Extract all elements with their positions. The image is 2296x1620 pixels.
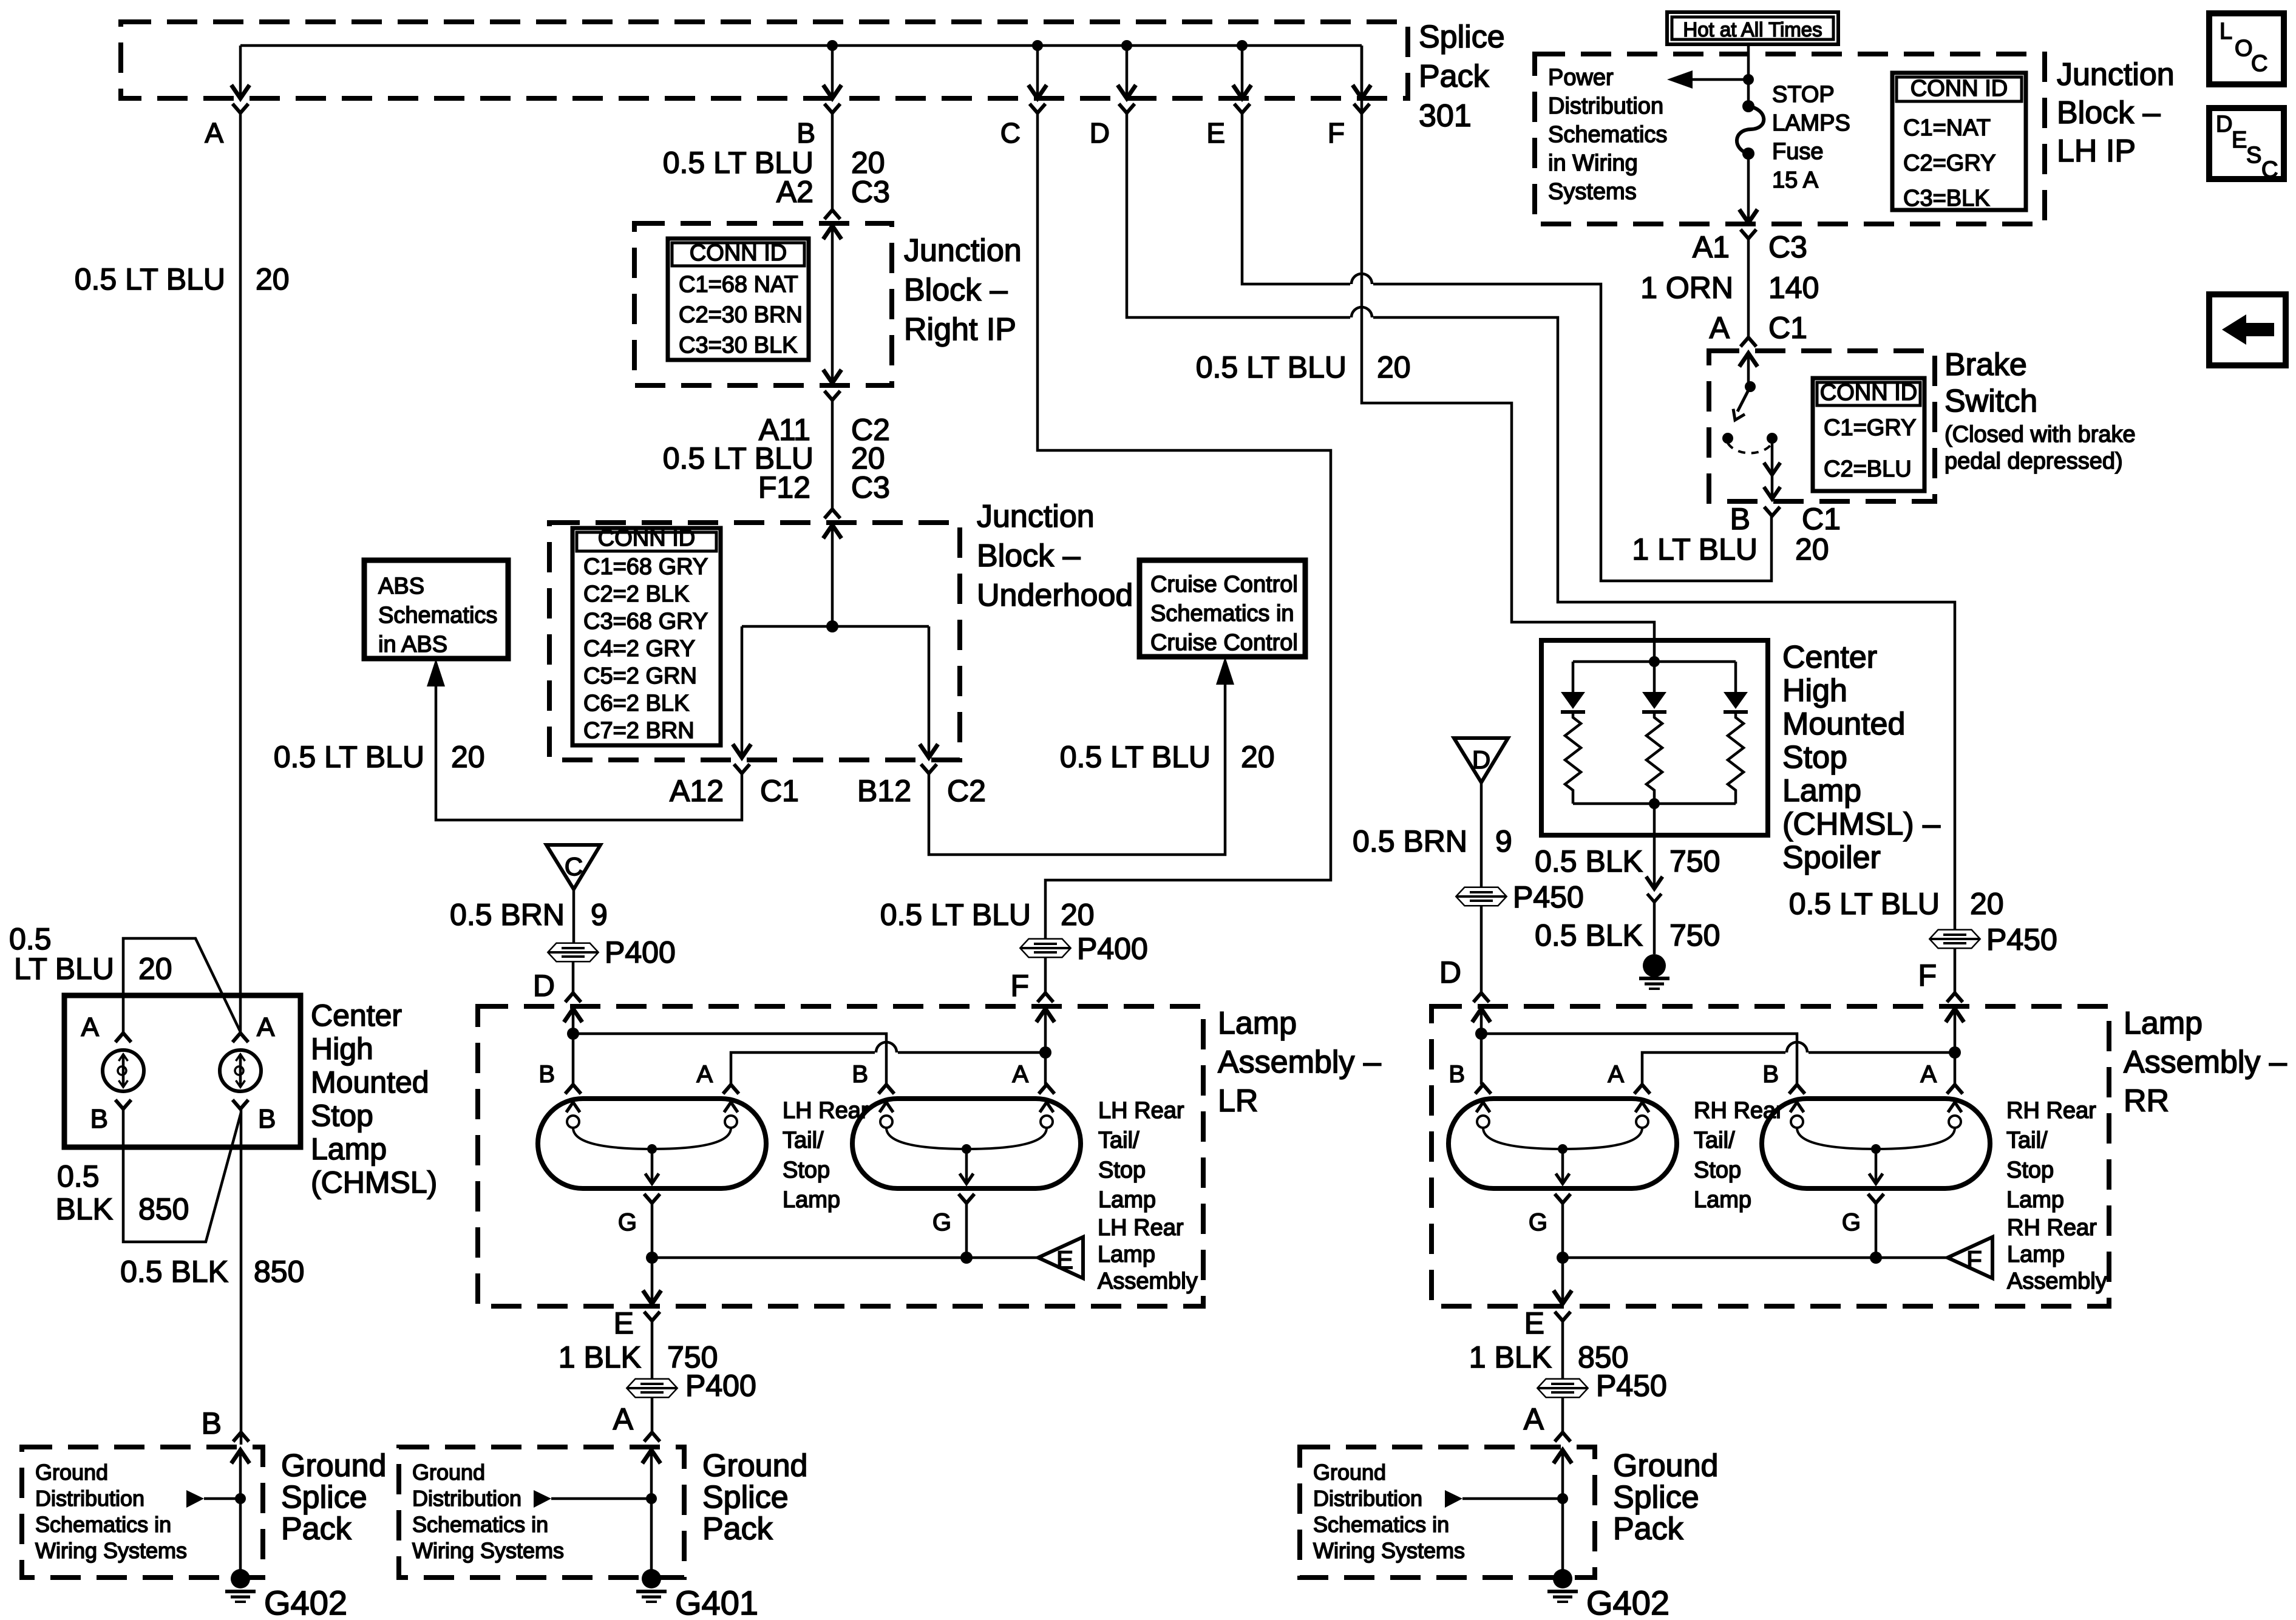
svg-text:C3=30 BLK: C3=30 BLK — [679, 333, 797, 358]
svg-text:Assembly –: Assembly – — [2124, 1045, 2287, 1080]
svg-text:A: A — [205, 117, 223, 149]
svg-text:LH Rear: LH Rear — [783, 1098, 869, 1123]
svg-text:F: F — [1010, 969, 1029, 1003]
svg-text:Pack: Pack — [1419, 59, 1490, 94]
svg-text:LH Rear: LH Rear — [1098, 1098, 1184, 1123]
svg-text:1 LT BLU: 1 LT BLU — [1632, 532, 1758, 566]
svg-text:LAMPS: LAMPS — [1772, 110, 1850, 136]
svg-text:C3=68 GRY: C3=68 GRY — [583, 609, 708, 634]
svg-text:A: A — [1012, 1061, 1028, 1088]
svg-text:Ground: Ground — [1313, 1460, 1386, 1485]
svg-text:B: B — [258, 1104, 276, 1134]
svg-text:Right IP: Right IP — [904, 312, 1016, 347]
svg-text:Schematics: Schematics — [378, 603, 497, 628]
svg-text:A: A — [1710, 311, 1730, 345]
svg-text:G: G — [1842, 1209, 1861, 1236]
svg-text:Lamp: Lamp — [2124, 1006, 2203, 1041]
svg-text:Stop: Stop — [2006, 1157, 2054, 1183]
svg-text:C1: C1 — [1768, 311, 1807, 345]
svg-text:A: A — [257, 1012, 275, 1042]
svg-text:Power: Power — [1548, 65, 1614, 90]
svg-text:Schematics in: Schematics in — [1313, 1512, 1449, 1537]
svg-text:Brake: Brake — [1944, 347, 2027, 382]
svg-text:0.5: 0.5 — [9, 922, 52, 956]
svg-text:F12: F12 — [758, 470, 810, 504]
svg-text:C6=2 BLK: C6=2 BLK — [583, 691, 689, 716]
svg-text:Cruise Control: Cruise Control — [1150, 572, 1298, 597]
svg-text:20: 20 — [256, 262, 290, 296]
svg-text:Splice: Splice — [1613, 1480, 1699, 1515]
svg-text:Systems: Systems — [1548, 179, 1637, 205]
svg-text:Lamp: Lamp — [2007, 1242, 2065, 1267]
svg-text:D: D — [2216, 112, 2232, 137]
svg-text:0.5 LT BLU: 0.5 LT BLU — [880, 898, 1031, 932]
svg-text:P400: P400 — [605, 935, 676, 969]
svg-text:C1=68 GRY: C1=68 GRY — [583, 554, 708, 580]
svg-text:RH Rear: RH Rear — [2007, 1215, 2097, 1241]
svg-text:C3=BLK: C3=BLK — [1903, 186, 1990, 211]
svg-text:Switch: Switch — [1944, 384, 2037, 419]
svg-text:RH Rear: RH Rear — [1694, 1098, 1784, 1123]
svg-text:Block –: Block – — [904, 273, 1008, 308]
svg-text:Cruise Control: Cruise Control — [1150, 630, 1298, 656]
svg-text:C2=GRY: C2=GRY — [1903, 151, 1995, 176]
svg-text:Stop: Stop — [1782, 740, 1847, 775]
svg-text:B: B — [796, 117, 815, 149]
svg-text:Fuse: Fuse — [1772, 139, 1823, 164]
svg-text:Ground: Ground — [702, 1448, 807, 1483]
svg-text:E: E — [1206, 117, 1225, 149]
svg-text:C1=NAT: C1=NAT — [1903, 115, 1991, 141]
svg-text:Mounted: Mounted — [311, 1065, 429, 1099]
svg-text:G402: G402 — [1586, 1584, 1669, 1617]
svg-text:Stop: Stop — [783, 1157, 830, 1183]
svg-text:Ground: Ground — [412, 1460, 485, 1485]
svg-text:Distribution: Distribution — [1548, 93, 1663, 119]
svg-text:ABS: ABS — [378, 574, 424, 599]
svg-text:Lamp: Lamp — [2006, 1187, 2064, 1213]
svg-text:C1: C1 — [1802, 502, 1841, 536]
svg-text:20: 20 — [1377, 350, 1411, 384]
svg-text:BLK: BLK — [55, 1192, 113, 1226]
svg-text:A: A — [1524, 1402, 1544, 1436]
svg-text:Tail/: Tail/ — [2006, 1128, 2048, 1153]
svg-text:Assembly: Assembly — [1098, 1269, 1198, 1294]
svg-text:20: 20 — [138, 952, 172, 986]
svg-text:0.5 BRN: 0.5 BRN — [1353, 824, 1467, 858]
svg-text:(CHMSL) –: (CHMSL) – — [1782, 807, 1940, 842]
svg-text:G402: G402 — [264, 1584, 347, 1617]
svg-text:LR: LR — [1218, 1083, 1258, 1119]
svg-text:0.5 LT BLU: 0.5 LT BLU — [1789, 887, 1940, 921]
svg-text:P400: P400 — [685, 1369, 756, 1403]
svg-text:C: C — [2251, 51, 2267, 76]
svg-text:C2=30 BRN: C2=30 BRN — [679, 302, 803, 328]
svg-text:B: B — [852, 1061, 868, 1088]
svg-text:0.5 BLK: 0.5 BLK — [1535, 844, 1643, 878]
svg-text:0.5 LT BLU: 0.5 LT BLU — [1196, 350, 1347, 384]
svg-text:P400: P400 — [1077, 932, 1148, 966]
svg-text:B: B — [1449, 1061, 1465, 1088]
svg-text:Splice: Splice — [281, 1480, 367, 1515]
svg-text:1 BLK: 1 BLK — [559, 1340, 641, 1374]
svg-text:Lamp: Lamp — [1782, 773, 1861, 808]
svg-text:Lamp: Lamp — [1694, 1187, 1751, 1213]
svg-text:Distribution: Distribution — [1313, 1486, 1422, 1511]
svg-text:F: F — [1966, 1246, 1982, 1274]
svg-text:Hot at All Times: Hot at All Times — [1683, 18, 1822, 41]
svg-text:G: G — [618, 1209, 637, 1236]
svg-text:C1=68 NAT: C1=68 NAT — [679, 272, 798, 297]
svg-text:Distribution: Distribution — [35, 1486, 144, 1511]
svg-text:pedal depressed): pedal depressed) — [1944, 449, 2123, 474]
svg-text:Tail/: Tail/ — [1098, 1128, 1140, 1153]
svg-text:LH Rear: LH Rear — [1098, 1215, 1184, 1241]
svg-text:D: D — [1472, 745, 1490, 774]
svg-text:Schematics in: Schematics in — [35, 1512, 171, 1537]
svg-text:20: 20 — [1795, 532, 1829, 566]
svg-text:E: E — [1056, 1246, 1073, 1274]
svg-text:0.5 LT BLU: 0.5 LT BLU — [1060, 740, 1211, 774]
svg-text:C3: C3 — [1768, 230, 1807, 264]
svg-text:in Wiring: in Wiring — [1548, 151, 1638, 176]
svg-text:D: D — [1439, 955, 1461, 989]
svg-text:Schematics: Schematics — [1548, 122, 1667, 147]
svg-text:G: G — [932, 1209, 951, 1236]
svg-text:Block –: Block – — [977, 538, 1081, 574]
svg-text:Tail/: Tail/ — [1694, 1128, 1735, 1153]
svg-text:0.5: 0.5 — [57, 1159, 100, 1193]
svg-text:Ground: Ground — [1613, 1448, 1718, 1483]
svg-text:STOP: STOP — [1772, 82, 1835, 107]
svg-text:15 A: 15 A — [1772, 168, 1819, 193]
svg-text:C2=2 BLK: C2=2 BLK — [583, 581, 689, 607]
svg-text:0.5 BLK: 0.5 BLK — [1535, 918, 1643, 952]
svg-text:Wiring Systems: Wiring Systems — [412, 1538, 564, 1563]
svg-text:in ABS: in ABS — [378, 632, 447, 657]
svg-text:Ground: Ground — [281, 1448, 386, 1483]
svg-text:D: D — [1090, 117, 1110, 149]
svg-text:750: 750 — [1669, 918, 1720, 952]
svg-text:C: C — [565, 852, 583, 881]
svg-text:Tail/: Tail/ — [783, 1128, 824, 1153]
svg-text:S: S — [2246, 143, 2261, 168]
svg-text:Assembly: Assembly — [2007, 1269, 2107, 1294]
svg-text:RR: RR — [2124, 1083, 2169, 1119]
svg-text:C: C — [2261, 157, 2278, 183]
svg-text:20: 20 — [1241, 740, 1275, 774]
svg-text:Block –: Block – — [2057, 95, 2161, 130]
svg-text:B12: B12 — [857, 774, 911, 808]
svg-text:Lamp: Lamp — [1098, 1187, 1156, 1213]
svg-text:LH IP: LH IP — [2057, 134, 2136, 169]
svg-text:Underhood: Underhood — [977, 578, 1133, 613]
svg-text:CONN ID: CONN ID — [1911, 76, 2008, 101]
svg-text:B: B — [1730, 502, 1750, 536]
svg-text:C1: C1 — [760, 774, 799, 808]
svg-text:L: L — [2220, 19, 2232, 44]
svg-text:Schematics in: Schematics in — [1150, 601, 1294, 626]
svg-text:Mounted: Mounted — [1782, 707, 1905, 742]
svg-text:C5=2 GRN: C5=2 GRN — [583, 663, 697, 689]
svg-text:P450: P450 — [1596, 1369, 1667, 1403]
svg-text:20: 20 — [451, 740, 485, 774]
svg-text:850: 850 — [254, 1255, 304, 1289]
svg-text:E: E — [2232, 127, 2247, 153]
svg-text:Distribution: Distribution — [412, 1486, 521, 1511]
svg-text:Stop: Stop — [1098, 1157, 1146, 1183]
svg-text:750: 750 — [1669, 844, 1720, 878]
svg-text:C1=GRY: C1=GRY — [1824, 415, 1916, 441]
svg-text:Assembly –: Assembly – — [1218, 1045, 1381, 1080]
svg-text:9: 9 — [1495, 824, 1512, 858]
svg-text:E: E — [1524, 1306, 1544, 1340]
svg-text:9: 9 — [591, 898, 608, 932]
svg-text:B: B — [90, 1104, 108, 1134]
svg-text:G: G — [1529, 1209, 1547, 1236]
svg-text:A: A — [613, 1402, 634, 1436]
svg-text:LT BLU: LT BLU — [14, 952, 114, 986]
svg-text:B: B — [538, 1061, 555, 1088]
svg-text:B: B — [1762, 1061, 1779, 1088]
svg-text:Ground: Ground — [35, 1460, 108, 1485]
svg-text:A2: A2 — [776, 175, 813, 209]
svg-text:CONN ID: CONN ID — [1820, 380, 1917, 405]
svg-text:Junction: Junction — [904, 233, 1022, 268]
svg-text:0.5 LT BLU: 0.5 LT BLU — [75, 262, 225, 296]
svg-text:(Closed with brake: (Closed with brake — [1944, 422, 2136, 447]
svg-text:Wiring Systems: Wiring Systems — [35, 1538, 187, 1563]
svg-text:Lamp: Lamp — [1098, 1242, 1155, 1267]
svg-text:Stop: Stop — [311, 1099, 373, 1133]
svg-text:Stop: Stop — [1694, 1157, 1741, 1183]
svg-text:140: 140 — [1768, 271, 1819, 305]
svg-text:C3: C3 — [851, 470, 890, 504]
svg-text:C2: C2 — [947, 774, 986, 808]
svg-text:F: F — [1328, 117, 1345, 149]
svg-text:C7=2 BRN: C7=2 BRN — [583, 718, 695, 744]
svg-text:CONN ID: CONN ID — [598, 526, 695, 551]
svg-text:Center: Center — [311, 998, 402, 1032]
svg-text:0.5 LT BLU: 0.5 LT BLU — [274, 740, 424, 774]
svg-text:301: 301 — [1419, 98, 1472, 134]
svg-text:0.5 BLK: 0.5 BLK — [120, 1255, 228, 1289]
svg-text:(CHMSL): (CHMSL) — [311, 1165, 437, 1199]
svg-text:High: High — [1782, 673, 1847, 708]
svg-text:850: 850 — [138, 1192, 189, 1226]
svg-text:Pack: Pack — [1613, 1511, 1684, 1547]
svg-text:A: A — [1608, 1061, 1624, 1088]
svg-text:Spoiler: Spoiler — [1782, 840, 1881, 875]
svg-text:1 ORN: 1 ORN — [1640, 271, 1733, 305]
svg-text:Wiring Systems: Wiring Systems — [1313, 1538, 1465, 1563]
svg-text:Splice: Splice — [1419, 19, 1505, 55]
svg-text:C: C — [1000, 117, 1021, 149]
svg-text:Center: Center — [1782, 640, 1877, 675]
svg-text:Schematics in: Schematics in — [412, 1512, 548, 1537]
svg-text:G401: G401 — [675, 1584, 758, 1617]
svg-text:20: 20 — [1970, 887, 2004, 921]
svg-text:Lamp: Lamp — [311, 1132, 387, 1166]
svg-text:Junction: Junction — [977, 499, 1095, 534]
svg-text:F: F — [1918, 958, 1937, 992]
svg-text:C3: C3 — [851, 175, 890, 209]
svg-text:O: O — [2235, 36, 2253, 61]
svg-text:A12: A12 — [670, 774, 724, 808]
svg-text:C2=BLU: C2=BLU — [1824, 456, 1912, 482]
svg-text:E: E — [614, 1306, 634, 1340]
svg-text:0.5 BRN: 0.5 BRN — [450, 898, 565, 932]
svg-text:P450: P450 — [1986, 923, 2057, 957]
svg-text:1 BLK: 1 BLK — [1469, 1340, 1552, 1374]
svg-text:D: D — [533, 969, 555, 1003]
svg-text:RH Rear: RH Rear — [2006, 1098, 2096, 1123]
svg-text:B: B — [202, 1406, 222, 1440]
svg-text:Pack: Pack — [281, 1511, 352, 1547]
svg-text:A: A — [696, 1061, 713, 1088]
svg-text:High: High — [311, 1032, 373, 1066]
svg-text:C4=2 GRY: C4=2 GRY — [583, 636, 695, 662]
svg-text:A: A — [81, 1012, 100, 1042]
svg-text:Pack: Pack — [702, 1511, 773, 1547]
svg-text:A: A — [1920, 1061, 1937, 1088]
svg-text:P450: P450 — [1513, 880, 1584, 914]
svg-text:Lamp: Lamp — [1218, 1006, 1297, 1041]
svg-text:Lamp: Lamp — [783, 1187, 840, 1213]
svg-text:A1: A1 — [1693, 230, 1730, 264]
svg-text:Junction: Junction — [2057, 57, 2175, 92]
svg-text:Splice: Splice — [702, 1480, 789, 1515]
svg-text:20: 20 — [1061, 898, 1095, 932]
svg-text:CONN ID: CONN ID — [690, 240, 787, 266]
